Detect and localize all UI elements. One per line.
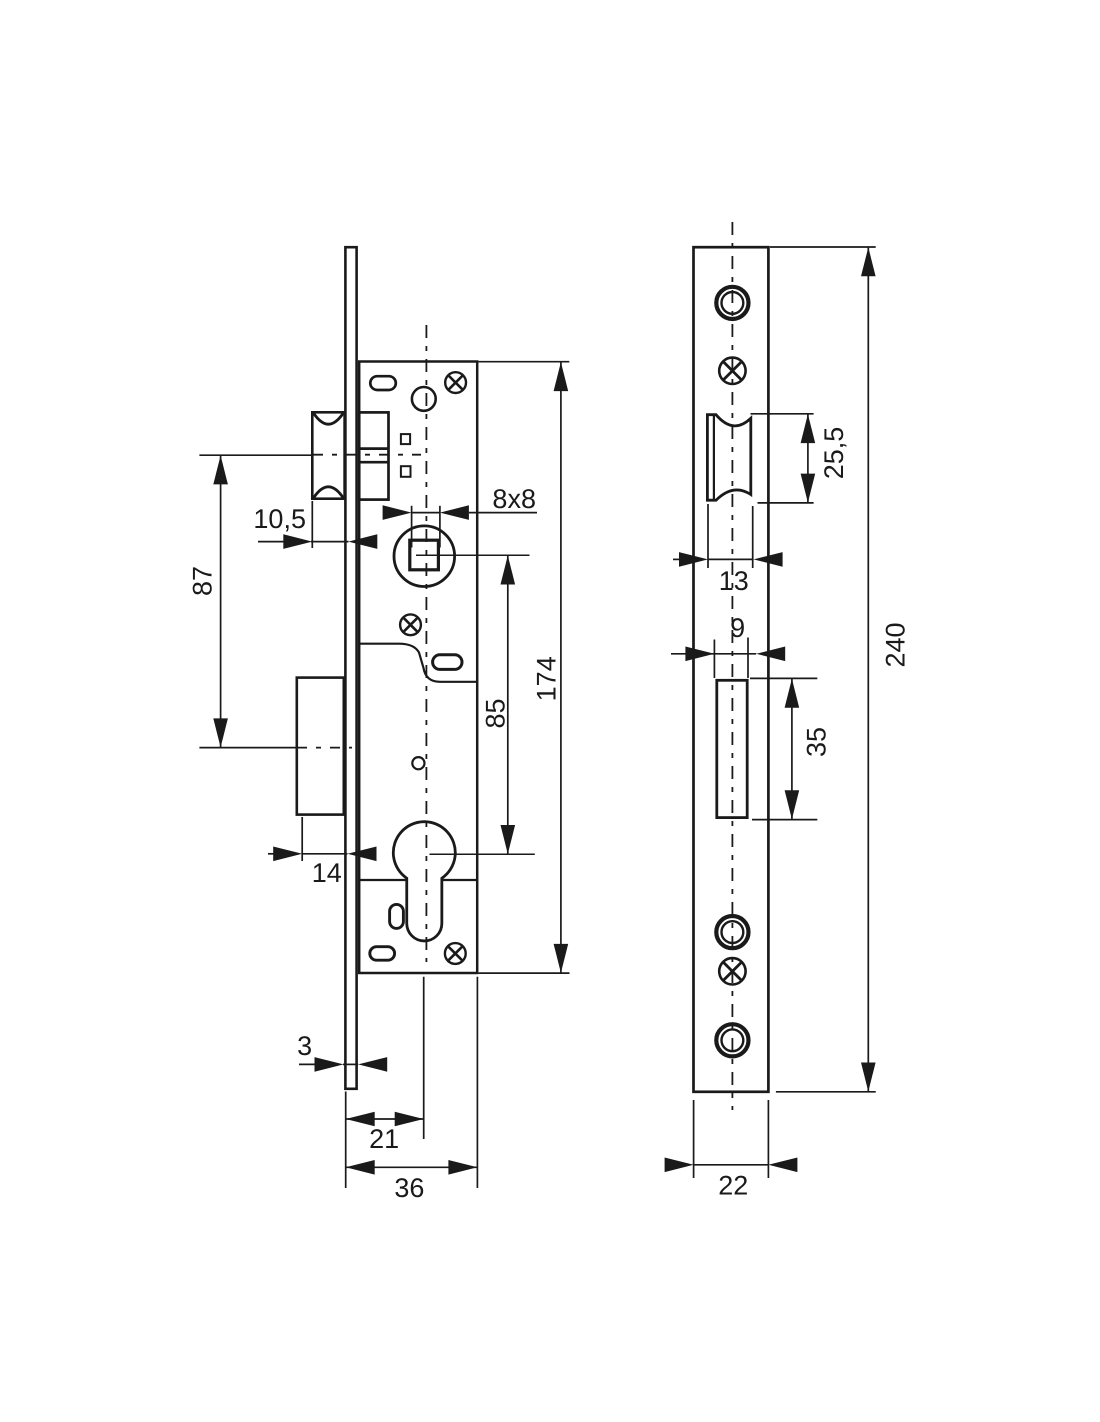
svg-text:21: 21 xyxy=(369,1124,399,1154)
follower square 8x8 xyxy=(410,540,439,570)
screw cross circle bottom xyxy=(445,943,466,964)
small square hole upper xyxy=(401,434,410,444)
faceplate (front view, edge-on strip) xyxy=(345,247,356,1089)
vertical centerline side view xyxy=(731,222,733,1110)
screw cross circle middle xyxy=(400,614,421,635)
dimension 25,5 xyxy=(751,414,816,503)
small pin hole xyxy=(412,757,424,769)
dimension 22 xyxy=(665,1100,798,1178)
follower circle xyxy=(394,526,455,587)
roller cutout (side view) xyxy=(707,415,750,501)
internal horizontal line at cylinder level xyxy=(359,879,476,881)
cylinder fixing hole (plain circle) xyxy=(412,387,436,411)
countersunk hole ring top xyxy=(716,287,748,319)
svg-text:13: 13 xyxy=(719,566,749,596)
svg-text:9: 9 xyxy=(730,613,745,643)
svg-text:85: 85 xyxy=(481,698,511,728)
stepped internal line xyxy=(359,644,476,682)
svg-text:14: 14 xyxy=(312,858,342,888)
svg-text:36: 36 xyxy=(394,1173,424,1203)
dimension 87 xyxy=(199,455,312,747)
dimension 85 xyxy=(416,555,535,854)
deadbolt slot (side view) xyxy=(717,680,747,817)
dimension 21 xyxy=(346,977,424,1188)
svg-text:22: 22 xyxy=(718,1170,748,1200)
screw cross circle side top xyxy=(719,358,745,384)
svg-text:87: 87 xyxy=(188,566,218,596)
lock case (front view) xyxy=(359,362,477,974)
svg-text:35: 35 xyxy=(802,727,832,757)
oval slot small vertical xyxy=(390,904,404,928)
vertical centerline front view xyxy=(425,325,427,962)
dimension 240 xyxy=(770,247,876,1092)
deadbolt centerline dashed xyxy=(297,747,352,749)
dimension 8x8 xyxy=(383,505,537,547)
screw cross circle side bottom xyxy=(719,958,745,984)
svg-text:25,5: 25,5 xyxy=(819,427,849,480)
svg-text:240: 240 xyxy=(881,622,911,667)
dimension 13 xyxy=(673,504,783,568)
countersunk hole ring lowest xyxy=(716,1024,748,1056)
dimension 10,5 xyxy=(258,501,377,549)
deadbolt (front view) xyxy=(297,678,344,815)
screw cross circle top right xyxy=(445,372,466,393)
svg-text:3: 3 xyxy=(297,1031,312,1061)
roller centerline dashed xyxy=(313,454,421,456)
dimension 36 xyxy=(346,977,478,1188)
forend plate (side view) xyxy=(694,247,769,1092)
dimension 9 xyxy=(671,638,785,679)
svg-text:10,5: 10,5 xyxy=(253,504,306,534)
dimension 14 xyxy=(268,817,377,861)
dimension 35 xyxy=(750,678,817,819)
svg-text:174: 174 xyxy=(532,656,562,701)
svg-text:8x8: 8x8 xyxy=(492,484,536,514)
oval slot top left xyxy=(370,376,396,390)
dimension 3 xyxy=(299,1057,387,1072)
dimension 174 xyxy=(479,362,570,973)
euro cylinder keyhole xyxy=(393,822,455,941)
latch body behind faceplate xyxy=(359,412,388,499)
oval slot middle xyxy=(433,655,462,670)
roller bolt (front view) xyxy=(312,412,344,498)
small square hole lower xyxy=(401,466,411,477)
oval slot bottom xyxy=(370,947,395,961)
countersunk hole ring middle xyxy=(716,916,748,948)
